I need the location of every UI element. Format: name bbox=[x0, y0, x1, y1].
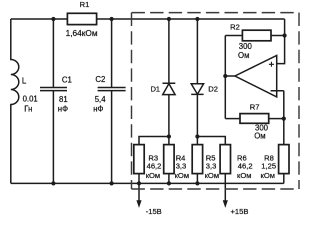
junction D2 top bbox=[195, 17, 199, 21]
svg-text:L: L bbox=[22, 76, 27, 85]
resistor R5 body bbox=[192, 145, 202, 174]
resistor R8 body bbox=[279, 145, 289, 174]
diode D1 wire bbox=[168, 19, 170, 145]
junction D1 top bbox=[167, 17, 171, 21]
wire top net bbox=[11, 18, 285, 20]
wire R2 right lead bbox=[271, 35, 285, 37]
wire op-amp output lead bbox=[225, 75, 235, 77]
dashed border bottom bbox=[132, 188, 300, 190]
junction R4 bottom bbox=[167, 181, 171, 185]
wire R3 bottom lead to -15V bbox=[138, 174, 140, 201]
wire R2 left lead bbox=[225, 35, 242, 37]
svg-text:D2: D2 bbox=[208, 84, 218, 93]
junction D1 rail bbox=[167, 134, 171, 138]
junction op-amp output bbox=[223, 74, 227, 78]
svg-text:кОм: кОм bbox=[146, 171, 160, 180]
svg-text:нФ: нФ bbox=[93, 105, 103, 114]
svg-text:кОм: кОм bbox=[261, 171, 275, 180]
wire minus input lead bbox=[271, 91, 284, 145]
svg-text:Гн: Гн bbox=[24, 104, 32, 113]
junction R3 bottom bbox=[137, 181, 141, 185]
resistor R6 body bbox=[220, 145, 230, 174]
inductor L1 left branch with coil bbox=[11, 19, 19, 183]
diode D2 symbol bbox=[191, 84, 203, 95]
wire R8 bottom lead bbox=[283, 174, 285, 184]
wire R7 right lead bbox=[269, 118, 284, 120]
svg-text:1,25: 1,25 bbox=[261, 162, 276, 171]
svg-text:нФ: нФ bbox=[58, 105, 68, 114]
junction R2 right / + input bbox=[283, 33, 287, 37]
svg-text:+15В: +15В bbox=[231, 207, 249, 216]
junction R5 bottom bbox=[195, 181, 199, 185]
resistor R1 body bbox=[67, 13, 96, 24]
junction C1 top bbox=[51, 17, 55, 21]
svg-text:R7: R7 bbox=[250, 102, 260, 111]
svg-text:46,2: 46,2 bbox=[238, 162, 253, 171]
dashed border right bbox=[298, 13, 300, 189]
wire R6 bottom lead to +15V bbox=[224, 174, 226, 201]
svg-text:81: 81 bbox=[59, 95, 68, 104]
capacitor C1 branch wires bbox=[52, 19, 54, 183]
capacitor C1 plates bbox=[40, 88, 67, 91]
svg-text:3,3: 3,3 bbox=[206, 162, 217, 171]
wire R5 bottom lead bbox=[196, 174, 198, 184]
junction C1 bottom bbox=[51, 181, 55, 185]
arrow -15V head bbox=[136, 200, 141, 208]
svg-text:C1: C1 bbox=[62, 76, 72, 85]
svg-text:R2: R2 bbox=[230, 23, 240, 32]
op-amp U1 triangle bbox=[235, 55, 277, 97]
junction C2 top bbox=[110, 17, 114, 21]
wire R4 bottom lead bbox=[168, 174, 170, 184]
diode D2 wire bbox=[196, 19, 198, 145]
svg-text:C2: C2 bbox=[95, 75, 105, 84]
svg-text:кОм: кОм bbox=[175, 171, 189, 180]
resistor R7 body bbox=[240, 114, 269, 124]
svg-text:1,64кОм: 1,64кОм bbox=[66, 28, 98, 38]
dashed border top bbox=[132, 12, 300, 14]
svg-text:5,4: 5,4 bbox=[95, 95, 107, 104]
dashed border left bbox=[131, 13, 133, 189]
diode D1 symbol bbox=[163, 83, 176, 94]
junction C2 bottom bbox=[110, 181, 114, 185]
svg-text:D1: D1 bbox=[151, 85, 160, 94]
wire inner rail left (R3-D1-R4 node) bbox=[139, 137, 169, 145]
arrow +15V head bbox=[223, 200, 228, 208]
svg-text:кОм: кОм bbox=[205, 171, 219, 180]
wire op-amp output node vertical bbox=[224, 36, 226, 119]
op-amp plus input mark bbox=[269, 62, 274, 67]
resistor R3 body bbox=[134, 145, 144, 174]
svg-text:46,2: 46,2 bbox=[147, 162, 162, 171]
wire right drop to + input bbox=[277, 19, 285, 64]
svg-text:Ом: Ом bbox=[254, 132, 265, 141]
junction R7 right / - input bbox=[282, 117, 286, 121]
resistor R4 body bbox=[164, 145, 174, 174]
svg-text:300: 300 bbox=[239, 42, 253, 51]
svg-text:R1: R1 bbox=[80, 0, 90, 9]
junction D2 rail bbox=[195, 134, 199, 138]
svg-text:0.01: 0.01 bbox=[23, 95, 38, 104]
capacitor C2 branch wires bbox=[111, 19, 113, 183]
wire inner rail right (D2-R5-R6 node) bbox=[197, 137, 225, 145]
resistor R2 body bbox=[242, 30, 271, 41]
wire bottom ground rail bbox=[11, 182, 284, 184]
wire R7 left lead bbox=[225, 118, 240, 120]
svg-text:кОм: кОм bbox=[237, 171, 251, 180]
svg-text:-15В: -15В bbox=[146, 207, 162, 216]
svg-text:Ом: Ом bbox=[238, 51, 249, 60]
svg-text:3,3: 3,3 bbox=[176, 162, 187, 171]
capacitor C2 plates bbox=[98, 88, 126, 91]
